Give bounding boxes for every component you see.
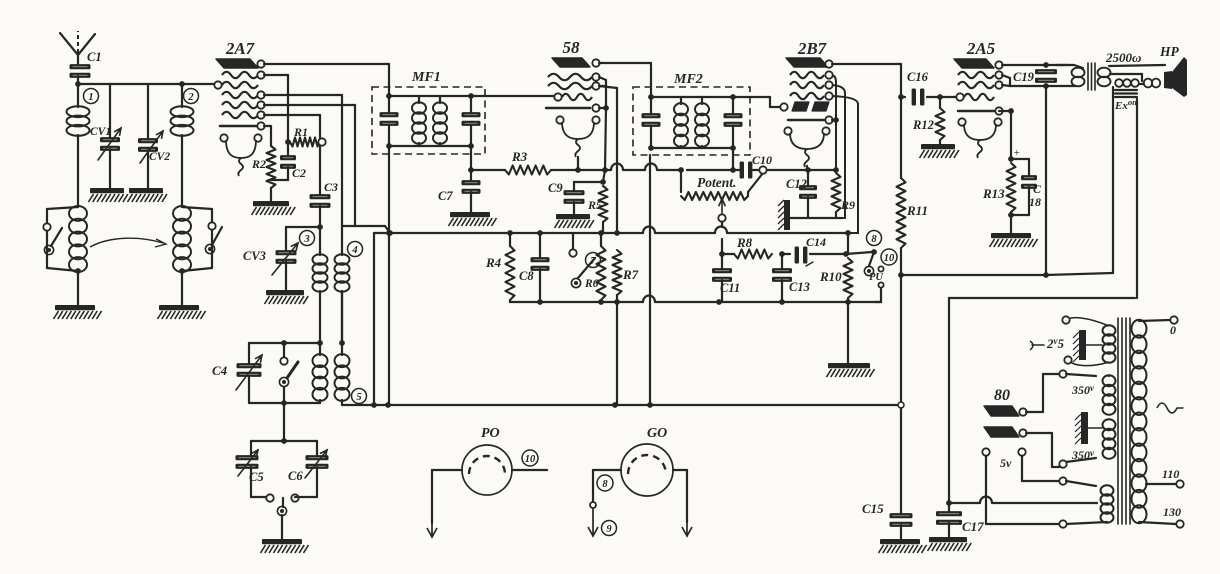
bus y405 xyxy=(342,402,901,408)
svg-text:C15: C15 xyxy=(862,501,884,516)
svg-text:C7: C7 xyxy=(438,189,453,203)
tube 58 suppressor xyxy=(546,104,600,111)
wire B+ y275 xyxy=(901,273,1113,275)
MF2 left line xyxy=(642,87,661,151)
wire bus to R10 xyxy=(847,233,849,254)
svg-text:10: 10 xyxy=(884,253,895,264)
speaker HP xyxy=(1164,57,1187,97)
wire 2A5 plate xyxy=(1002,62,1069,68)
MF1 box xyxy=(372,70,485,154)
MF1 secondary coil xyxy=(433,96,447,146)
osc coil upper right xyxy=(335,254,350,346)
wire secondary to speaker xyxy=(1109,65,1165,81)
coil L3 switch box xyxy=(43,207,78,271)
pot wiper xyxy=(718,199,725,257)
ground xyxy=(555,214,594,228)
resistor R5 xyxy=(587,170,608,233)
wire to 2A5 grid xyxy=(940,96,956,98)
wire lamp PO left xyxy=(432,470,462,523)
svg-text:C8: C8 xyxy=(519,269,534,283)
svg-text:C4: C4 xyxy=(212,363,228,378)
wire xyxy=(78,83,221,85)
svg-text:PU: PU xyxy=(869,272,884,283)
switch C5C6 xyxy=(251,494,317,515)
svg-text:C19: C19 xyxy=(1013,70,1035,84)
wire 2B7 grid1 down xyxy=(832,75,839,173)
svg-text:8: 8 xyxy=(871,234,877,245)
tube 2B7 suppressor xyxy=(788,116,833,123)
capacitor C16 xyxy=(898,70,943,106)
wire lamp GO right xyxy=(673,470,687,522)
output transformer secondary xyxy=(1098,68,1111,87)
wire anode2 xyxy=(1026,433,1060,467)
coil L4 switch box xyxy=(182,207,222,271)
wire AVC xyxy=(551,169,605,171)
wire MF1 left down xyxy=(386,154,392,236)
wire lamp GO left xyxy=(593,470,621,501)
rectifier 80 anode1 xyxy=(984,406,1027,416)
svg-text:GO: GO xyxy=(647,426,667,441)
MF1 left line xyxy=(380,87,399,154)
svg-text:R2: R2 xyxy=(251,157,266,171)
resistor R4 xyxy=(485,230,515,302)
tube 2A5 grid3 xyxy=(956,93,994,100)
resistor R2 xyxy=(251,146,276,201)
osc coil lower right xyxy=(335,291,350,405)
capacitor C15 xyxy=(862,501,913,539)
MF2 box xyxy=(633,72,750,155)
MF1 bottom wire xyxy=(389,145,471,147)
ground xyxy=(128,188,167,202)
wire lamp PO right xyxy=(512,469,547,471)
B+ line y503 xyxy=(949,497,1097,503)
tube 2A5 label xyxy=(966,39,996,58)
arrow xyxy=(588,509,598,536)
ground xyxy=(158,305,206,319)
svg-text:R10: R10 xyxy=(819,269,842,284)
svg-text:C1: C1 xyxy=(87,50,102,64)
svg-text:7: 7 xyxy=(590,256,596,267)
tube 58 grid2 xyxy=(548,82,600,89)
wire MF2 sec bottom xyxy=(730,148,736,173)
capacitor C3 xyxy=(310,180,339,230)
resistor R1 xyxy=(290,125,326,147)
resistor R8 xyxy=(734,235,785,259)
ground xyxy=(920,144,959,158)
speaker voice coil xyxy=(1140,79,1160,88)
MF1 primary coil xyxy=(412,96,426,146)
resistor R12 xyxy=(912,97,945,144)
arrow xyxy=(427,523,437,537)
tube 2A7 label xyxy=(225,39,256,58)
capacitor C4 xyxy=(212,343,262,403)
wire xyxy=(281,403,287,444)
wire R13 ground xyxy=(1010,215,1012,233)
MF2 right line xyxy=(724,94,743,151)
tube 2B7 plate xyxy=(786,58,833,68)
svg-text:C6: C6 xyxy=(288,469,303,483)
MF2 secondary coil xyxy=(695,97,709,148)
capacitor C2 xyxy=(271,142,306,180)
svg-text:Potent.: Potent. xyxy=(697,175,736,190)
svg-text:C16: C16 xyxy=(907,70,929,84)
5v loop xyxy=(982,448,1060,524)
wire 58 grid2 down xyxy=(599,86,617,233)
wire x650 down xyxy=(649,155,651,405)
node 9 GO xyxy=(602,521,617,536)
node 4 xyxy=(348,242,363,257)
wire field down xyxy=(1112,87,1114,273)
switch 7 xyxy=(569,233,600,288)
capacitor C19 xyxy=(1013,69,1057,84)
svg-text:C11: C11 xyxy=(720,281,740,295)
switch C4 xyxy=(279,343,298,403)
svg-text:C9: C9 xyxy=(548,181,563,195)
wire AVC right2 xyxy=(768,167,836,173)
svg-text:R8: R8 xyxy=(736,235,753,250)
wire MF2 to diode xyxy=(733,97,784,107)
capacitor C14 xyxy=(782,235,872,266)
osc coil upper left xyxy=(313,227,328,343)
wire AVC right xyxy=(687,169,740,171)
capacitor C10 xyxy=(740,153,772,179)
resistor R7 xyxy=(613,230,639,295)
tube 2A7 grid5 xyxy=(222,111,265,118)
svg-text:58: 58 xyxy=(563,38,581,57)
ground xyxy=(265,290,309,304)
arrow xyxy=(682,522,692,536)
tube 58 label xyxy=(563,38,581,57)
tube 58 heater xyxy=(556,116,599,157)
wire R8 line xyxy=(722,253,734,255)
svg-text:CV1: CV1 xyxy=(90,126,111,138)
output transformer core xyxy=(1088,63,1095,90)
tube 2A7 grid2 xyxy=(214,81,258,88)
winding HT xyxy=(1059,370,1115,467)
tube 2B7 grid3 xyxy=(790,92,833,99)
wire C12 R9 gnd xyxy=(790,217,841,219)
coupling arrow xyxy=(90,238,166,247)
variable capacitor C6 xyxy=(288,441,329,497)
tube 2A5 grid2 xyxy=(958,81,1003,88)
capacitor C1 xyxy=(70,50,102,78)
wire 58 grids xyxy=(599,77,609,173)
wire C15 col xyxy=(900,408,902,514)
ground xyxy=(928,537,972,551)
ground xyxy=(449,212,497,226)
ground xyxy=(89,188,128,202)
svg-text:MF2: MF2 xyxy=(673,72,703,87)
wire C5C6 top xyxy=(251,440,317,442)
filament bar xyxy=(1073,330,1102,362)
tube 2A5 heater xyxy=(958,118,1001,158)
node 3 xyxy=(300,231,315,246)
power transformer core xyxy=(1118,318,1130,524)
resistor R3 xyxy=(505,149,551,175)
capacitor C7 xyxy=(438,180,481,212)
capacitor C13 xyxy=(772,254,810,302)
wire R7 down xyxy=(616,295,618,405)
wire C3 to CV3 xyxy=(286,227,320,252)
svg-text:2A5: 2A5 xyxy=(966,39,996,58)
svg-text:80: 80 xyxy=(994,387,1010,404)
svg-text:C3: C3 xyxy=(324,180,338,194)
tube 2B7 diode plates xyxy=(780,102,829,111)
wire AVC xyxy=(471,169,505,171)
field coil Exc xyxy=(1114,79,1139,112)
tube 2A7 grid4 xyxy=(222,101,265,108)
antenna xyxy=(60,31,95,68)
resistor R9 xyxy=(832,173,856,218)
resistor R11 xyxy=(897,97,928,278)
wire 2B7 plate xyxy=(832,64,901,97)
svg-text:CV3: CV3 xyxy=(243,249,266,263)
wire grid4 bus xyxy=(264,105,390,233)
svg-text:10: 10 xyxy=(525,454,536,465)
variable capacitor CV1 xyxy=(90,84,121,188)
ground bar vertical xyxy=(778,200,790,230)
svg-text:0: 0 xyxy=(1170,323,1176,337)
tube 58 grid3 xyxy=(554,93,592,100)
svg-text:R1: R1 xyxy=(293,125,308,139)
wire 58 plate xyxy=(599,63,651,87)
capacitor C9 xyxy=(548,181,603,214)
svg-text:2A7: 2A7 xyxy=(225,39,256,58)
svg-text:3: 3 xyxy=(303,234,309,245)
output transformer label xyxy=(1105,44,1180,65)
svg-text:C12: C12 xyxy=(786,177,807,191)
coil L2 xyxy=(171,84,194,207)
svg-text:8: 8 xyxy=(602,479,608,490)
winding 5v xyxy=(1059,477,1113,527)
capacitor C18 xyxy=(1011,159,1042,215)
ground xyxy=(879,539,927,553)
svg-text:R7: R7 xyxy=(622,267,639,282)
svg-text:1: 1 xyxy=(88,92,93,103)
resistor R13 xyxy=(982,163,1016,218)
wire 58 cathode xyxy=(575,157,581,173)
wire osc box top xyxy=(249,340,323,346)
MF2 primary coil xyxy=(674,97,688,148)
svg-text:R9: R9 xyxy=(840,198,855,212)
node R1C2 xyxy=(285,139,291,145)
wire R10 ground xyxy=(847,302,849,363)
wire MF1 to 58 grid xyxy=(471,95,555,97)
wire screen down xyxy=(999,111,1020,162)
ground xyxy=(261,539,309,553)
svg-text:C17: C17 xyxy=(962,519,984,534)
wire grid1 to R1 xyxy=(264,75,288,142)
svg-text:R5: R5 xyxy=(587,198,602,212)
wire 2A5 grids xyxy=(1002,75,1049,89)
ground xyxy=(990,233,1038,247)
wire MF1 sec bottom xyxy=(468,146,474,182)
ground xyxy=(827,363,875,377)
mains sine symbol xyxy=(1157,403,1183,413)
wire 2B7 grid3 down xyxy=(832,96,858,236)
osc coil lower left xyxy=(313,343,328,403)
node 5 xyxy=(352,389,367,404)
coil L1 xyxy=(67,84,90,207)
wire 5v bottom xyxy=(986,523,1060,525)
PU jacks xyxy=(869,266,884,302)
variable capacitor CV2 xyxy=(138,84,170,188)
coil L3 xyxy=(69,206,87,305)
tube 2A5 plate xyxy=(954,59,1003,69)
wire osc box bottom xyxy=(249,400,320,406)
svg-text:R11: R11 xyxy=(906,203,928,218)
resistor R6 xyxy=(584,230,606,302)
wire 2B7 grid2 down xyxy=(832,85,845,218)
wire plate to primary xyxy=(1056,64,1074,66)
HT center bar xyxy=(1075,412,1102,444)
tube 2A5 screen bar xyxy=(958,107,1014,114)
node 10 PO xyxy=(522,450,538,466)
tube 2A5 grid1 xyxy=(958,71,1003,78)
svg-text:110: 110 xyxy=(1162,467,1179,481)
coil L4 xyxy=(173,206,191,305)
tube 58 plate xyxy=(552,58,600,67)
capacitor C11 xyxy=(712,254,740,302)
potentiometer Potent xyxy=(681,173,763,200)
svg-text:C14: C14 xyxy=(806,235,826,249)
wire R11 down xyxy=(898,275,904,408)
svg-text:4: 4 xyxy=(351,245,357,256)
node 8 switch xyxy=(864,231,881,276)
capacitor C17 xyxy=(936,503,984,537)
wire anode1 xyxy=(1026,374,1060,412)
wire speaker return xyxy=(1136,99,1138,298)
svg-text:5v: 5v xyxy=(1000,456,1012,470)
wire xyxy=(281,515,283,539)
bus y233 xyxy=(387,227,848,236)
svg-text:R12: R12 xyxy=(912,118,934,132)
svg-text:R4: R4 xyxy=(485,255,502,270)
svg-text:C5: C5 xyxy=(249,470,264,484)
svg-text:C10: C10 xyxy=(752,153,772,167)
power transformer primary xyxy=(1132,316,1184,527)
wire grid3 to osc xyxy=(264,95,342,255)
tube 2A7 grid1 xyxy=(222,71,265,78)
wire x374 xyxy=(374,233,390,405)
svg-text:R13: R13 xyxy=(982,186,1005,201)
svg-text:R3: R3 xyxy=(511,149,528,164)
capacitor C8 xyxy=(519,230,550,302)
svg-text:CV2: CV2 xyxy=(149,151,170,163)
rectifier 80 anode2 xyxy=(984,427,1027,437)
node 10 xyxy=(881,249,897,265)
node 2 xyxy=(179,81,198,103)
svg-text:+: + xyxy=(1013,147,1020,159)
wire MF1 col down xyxy=(388,233,390,405)
variable capacitor C5 xyxy=(236,441,264,497)
node 1 xyxy=(84,89,99,104)
svg-text:2: 2 xyxy=(187,92,194,103)
rectifier 80 label xyxy=(994,387,1010,404)
tube 2B7 label xyxy=(797,39,828,58)
svg-text:2500ω: 2500ω xyxy=(1105,50,1141,65)
line y302 xyxy=(510,296,881,305)
tube 2A7 plate xyxy=(216,59,265,68)
resistor R10 xyxy=(819,258,853,302)
GO jack xyxy=(590,502,596,508)
MF1 right line xyxy=(462,93,481,149)
MF1 top wire xyxy=(389,95,471,97)
wire AVC hops xyxy=(605,164,681,171)
wire grid5 to C3 xyxy=(264,115,320,196)
tube 2B7 grid2 xyxy=(790,81,833,88)
output transformer primary xyxy=(1049,65,1085,86)
svg-text:130: 130 xyxy=(1163,505,1181,519)
svg-text:18: 18 xyxy=(1029,195,1041,209)
svg-text:HP: HP xyxy=(1159,44,1180,59)
svg-text:2B7: 2B7 xyxy=(797,39,828,58)
wire y298 xyxy=(946,298,1135,506)
wire 2B7 cathode xyxy=(806,166,808,170)
wire pot xyxy=(678,167,684,192)
lamp PO xyxy=(462,426,512,495)
wire xyxy=(75,76,81,87)
MF2 top wire xyxy=(651,96,733,98)
tube 2A7 screen bar xyxy=(220,122,265,129)
capacitor C12 xyxy=(786,170,817,218)
svg-text:C: C xyxy=(1033,182,1042,196)
winding 2v5 xyxy=(1030,316,1116,365)
svg-text:C2: C2 xyxy=(292,166,306,180)
svg-text:R6: R6 xyxy=(584,278,599,290)
svg-text:MF1: MF1 xyxy=(411,70,441,85)
ground xyxy=(54,305,102,319)
wire 2B7 suppressor xyxy=(832,117,839,123)
MF2 bottom wire xyxy=(651,147,733,149)
wire plate 2A7 to MF1 xyxy=(264,64,389,87)
tube 2A7 grid3 xyxy=(222,91,265,98)
tube 58 grid1 xyxy=(548,73,600,80)
tube 2A7 heater xyxy=(220,134,261,176)
ground xyxy=(252,201,296,215)
lamp GO xyxy=(621,426,673,496)
svg-text:9: 9 xyxy=(606,524,612,535)
node 8 GO xyxy=(597,475,613,491)
svg-text:5: 5 xyxy=(356,392,361,403)
tube 2B7 grid1 xyxy=(790,71,833,78)
svg-text:C13: C13 xyxy=(789,280,810,294)
wire screen to R2 xyxy=(264,126,271,146)
variable capacitor CV3 xyxy=(243,243,298,290)
svg-text:PO: PO xyxy=(481,426,500,441)
wire B+ C19 down xyxy=(1043,86,1049,278)
tube 2B7 heater xyxy=(784,127,829,167)
